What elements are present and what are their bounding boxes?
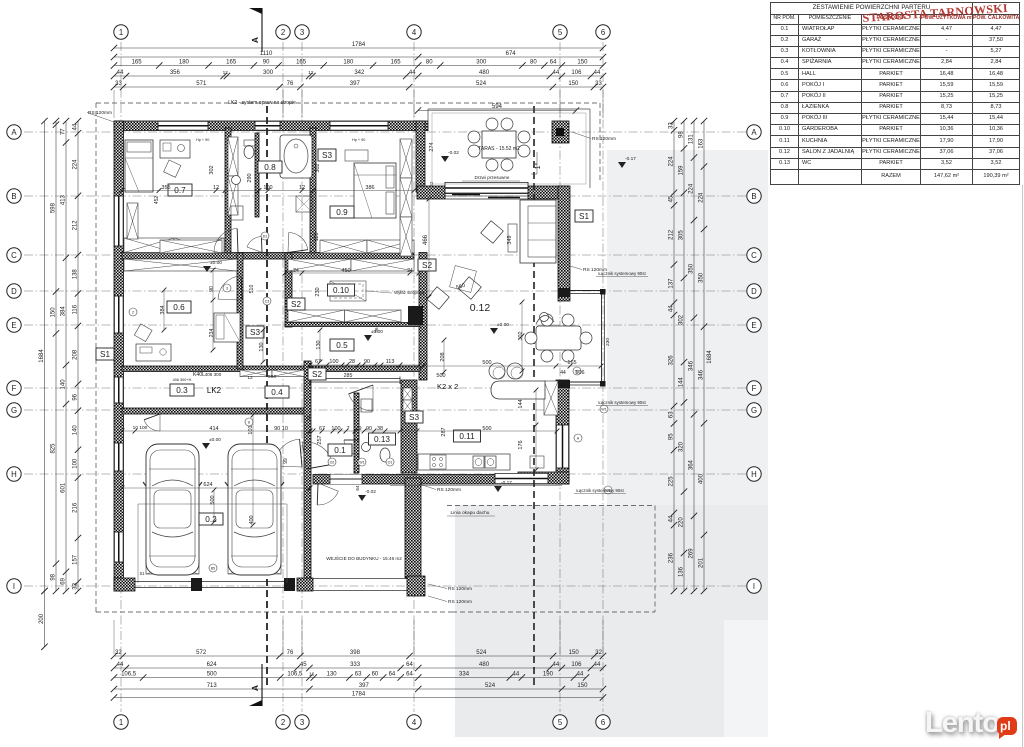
- svg-text:RS 120mm: RS 120mm: [437, 487, 461, 493]
- svg-text:165: 165: [296, 60, 307, 66]
- svg-text:12: 12: [213, 185, 219, 191]
- svg-text:A: A: [250, 37, 260, 43]
- svg-text:12: 12: [299, 185, 305, 191]
- svg-text:305: 305: [679, 230, 685, 241]
- svg-text:9: 9: [358, 426, 361, 432]
- svg-text:E: E: [11, 321, 16, 330]
- svg-text:150: 150: [577, 60, 588, 66]
- svg-text:140: 140: [61, 379, 67, 390]
- svg-text:36: 36: [374, 327, 379, 333]
- svg-text:400: 400: [699, 473, 705, 484]
- svg-text:S3: S3: [322, 151, 332, 160]
- svg-text:O2: O2: [330, 461, 335, 465]
- svg-text:38: 38: [377, 426, 383, 432]
- svg-text:D: D: [11, 287, 17, 296]
- svg-text:67: 67: [319, 426, 325, 432]
- svg-text:33: 33: [669, 122, 675, 129]
- svg-text:466: 466: [423, 234, 429, 245]
- svg-text:TARAS - 15.52 m2: TARAS - 15.52 m2: [478, 146, 520, 152]
- svg-text:44: 44: [409, 70, 416, 76]
- svg-text:350: 350: [699, 272, 705, 283]
- svg-text:Łącznik systemowy 90st: Łącznik systemowy 90st: [598, 400, 646, 405]
- svg-text:LK2: LK2: [207, 386, 222, 395]
- svg-text:44: 44: [577, 672, 584, 678]
- svg-text:230: 230: [315, 287, 321, 296]
- svg-text:B5: B5: [211, 567, 215, 571]
- svg-text:510: 510: [249, 285, 255, 294]
- svg-text:384: 384: [160, 305, 166, 314]
- svg-text:S2: S2: [422, 261, 432, 270]
- svg-text:44: 44: [512, 672, 519, 678]
- svg-text:0.5: 0.5: [336, 341, 348, 350]
- svg-text:140: 140: [73, 425, 79, 436]
- svg-text:24: 24: [306, 415, 311, 421]
- svg-text:F: F: [752, 384, 757, 393]
- svg-text:B: B: [751, 192, 756, 201]
- svg-text:44: 44: [669, 515, 675, 522]
- svg-text:598: 598: [51, 202, 57, 213]
- svg-text:6: 6: [601, 28, 605, 37]
- svg-text:480: 480: [479, 70, 490, 76]
- svg-text:100: 100: [329, 359, 338, 365]
- svg-text:144: 144: [518, 399, 524, 408]
- svg-text:4: 4: [412, 718, 417, 727]
- svg-text:RS 120mm: RS 120mm: [88, 110, 112, 116]
- svg-text:S1: S1: [579, 212, 589, 221]
- svg-text:7: 7: [346, 426, 349, 432]
- svg-text:0.4: 0.4: [271, 388, 283, 397]
- svg-text:1: 1: [119, 718, 123, 727]
- svg-text:K40L: K40L: [193, 372, 205, 378]
- svg-text:12: 12: [223, 70, 229, 76]
- svg-text:10 100: 10 100: [133, 425, 148, 431]
- svg-text:3: 3: [300, 28, 304, 37]
- svg-text:24: 24: [293, 268, 299, 274]
- svg-text:130: 130: [316, 340, 322, 349]
- svg-text:257: 257: [317, 435, 323, 444]
- svg-text:0.1: 0.1: [334, 446, 346, 455]
- svg-text:4: 4: [412, 28, 417, 37]
- svg-text:180: 180: [179, 60, 190, 66]
- svg-text:355: 355: [161, 185, 170, 191]
- svg-text:H: H: [751, 470, 757, 479]
- svg-text:624: 624: [203, 482, 212, 488]
- svg-text:150: 150: [577, 683, 588, 689]
- svg-text:100: 100: [263, 185, 272, 191]
- svg-text:33: 33: [595, 81, 602, 87]
- svg-text:0.6: 0.6: [173, 303, 185, 312]
- svg-text:138: 138: [73, 269, 79, 280]
- svg-text:S2: S2: [291, 300, 301, 309]
- svg-text:500: 500: [207, 672, 218, 678]
- svg-text:-0.17: -0.17: [625, 156, 636, 162]
- svg-text:571: 571: [196, 81, 207, 87]
- svg-text:44: 44: [73, 123, 79, 130]
- svg-text:524: 524: [476, 81, 487, 87]
- svg-text:450: 450: [341, 268, 350, 274]
- svg-text:0.9: 0.9: [336, 208, 348, 217]
- svg-text:1684: 1684: [39, 349, 45, 363]
- svg-text:98: 98: [679, 131, 685, 138]
- svg-text:-0.02: -0.02: [448, 150, 459, 156]
- svg-text:302: 302: [518, 331, 524, 340]
- svg-text:Hp + 90: Hp + 90: [352, 138, 365, 142]
- svg-text:0.12: 0.12: [470, 302, 491, 314]
- svg-text:±0.00: ±0.00: [209, 437, 221, 443]
- svg-text:0.8: 0.8: [264, 163, 276, 172]
- svg-text:572: 572: [196, 650, 207, 656]
- svg-text:O1: O1: [388, 461, 393, 465]
- svg-text:33: 33: [115, 81, 122, 87]
- svg-text:90: 90: [364, 359, 370, 365]
- svg-text:320: 320: [679, 441, 685, 452]
- svg-text:32: 32: [595, 650, 602, 656]
- svg-text:131: 131: [689, 134, 695, 145]
- svg-text:413: 413: [61, 194, 67, 205]
- svg-text:200: 200: [39, 613, 45, 624]
- svg-text:302: 302: [679, 314, 685, 325]
- svg-text:150: 150: [51, 307, 57, 318]
- svg-text:99: 99: [283, 458, 289, 464]
- svg-text:5: 5: [558, 718, 563, 727]
- svg-text:406 300+H: 406 300+H: [173, 378, 192, 382]
- svg-text:G: G: [751, 406, 757, 415]
- svg-text:406 300: 406 300: [205, 372, 222, 377]
- svg-text:130: 130: [327, 672, 338, 678]
- svg-text:44: 44: [669, 305, 675, 312]
- svg-text:165: 165: [132, 60, 143, 66]
- svg-text:269: 269: [689, 548, 695, 559]
- svg-text:80: 80: [530, 60, 537, 66]
- svg-text:150: 150: [569, 650, 580, 656]
- svg-text:W1: W1: [601, 408, 606, 412]
- svg-text:212: 212: [73, 220, 79, 231]
- svg-text:0.11: 0.11: [459, 432, 475, 441]
- svg-text:12: 12: [308, 70, 314, 76]
- svg-text:44: 44: [553, 662, 560, 668]
- svg-text:RS 120mm: RS 120mm: [583, 267, 607, 273]
- svg-text:RS 120mm: RS 120mm: [592, 136, 616, 142]
- svg-text:RS 120mm: RS 120mm: [448, 599, 472, 605]
- svg-text:90: 90: [263, 60, 270, 66]
- svg-text:45: 45: [669, 195, 675, 202]
- svg-text:524: 524: [476, 650, 487, 656]
- svg-text:350: 350: [689, 263, 695, 274]
- svg-text:S3: S3: [250, 328, 260, 337]
- svg-text:452: 452: [154, 196, 160, 205]
- svg-text:K2 x 2: K2 x 2: [437, 382, 458, 391]
- svg-text:400: 400: [249, 515, 255, 524]
- svg-text:67: 67: [315, 359, 321, 365]
- svg-text:212: 212: [669, 229, 675, 240]
- svg-text:113: 113: [386, 359, 395, 365]
- svg-text:33: 33: [73, 582, 79, 589]
- svg-text:2: 2: [281, 28, 285, 37]
- svg-text:44: 44: [594, 70, 601, 76]
- svg-text:106: 106: [571, 70, 582, 76]
- svg-text:63: 63: [669, 411, 675, 418]
- svg-text:45: 45: [300, 662, 307, 668]
- svg-text:Linia okapu dachu: Linia okapu dachu: [451, 510, 490, 516]
- svg-text:674: 674: [506, 51, 517, 57]
- svg-text:414: 414: [209, 426, 218, 432]
- svg-text:S2: S2: [312, 370, 322, 379]
- svg-text:W1: W1: [359, 461, 364, 465]
- svg-text:500: 500: [482, 426, 491, 432]
- svg-text:52: 52: [429, 181, 434, 186]
- svg-text:S1: S1: [139, 571, 145, 576]
- svg-text:106,5: 106,5: [121, 672, 137, 678]
- svg-text:Wyłaz stropowy: Wyłaz stropowy: [394, 290, 426, 295]
- svg-text:RS 120mm: RS 120mm: [448, 586, 472, 592]
- svg-text:Drzwi przesuwne: Drzwi przesuwne: [475, 175, 510, 180]
- svg-text:825: 825: [51, 443, 57, 454]
- svg-text:8: 8: [248, 421, 250, 425]
- svg-text:H: H: [11, 470, 17, 479]
- svg-text:64: 64: [550, 60, 557, 66]
- svg-text:1784: 1784: [352, 692, 366, 698]
- svg-text:95: 95: [669, 433, 675, 440]
- svg-text:163: 163: [699, 138, 705, 149]
- svg-text:90: 90: [366, 426, 372, 432]
- svg-text:I: I: [13, 582, 15, 591]
- svg-text:106,5: 106,5: [287, 672, 303, 678]
- svg-text:302: 302: [315, 163, 321, 172]
- svg-text:159: 159: [679, 165, 685, 176]
- svg-text:208: 208: [73, 349, 79, 360]
- svg-text:201: 201: [699, 557, 705, 568]
- svg-text:C3: C3: [265, 300, 270, 304]
- svg-text:206: 206: [268, 374, 276, 380]
- svg-text:0.13: 0.13: [374, 435, 390, 444]
- svg-text:180: 180: [343, 60, 354, 66]
- svg-text:64: 64: [389, 672, 396, 678]
- svg-text:137: 137: [669, 278, 675, 289]
- svg-text:290: 290: [247, 173, 253, 182]
- svg-text:176: 176: [518, 440, 524, 449]
- svg-text:224: 224: [689, 183, 695, 194]
- svg-text:28: 28: [349, 359, 355, 365]
- svg-text:I: I: [753, 582, 755, 591]
- svg-text:2: 2: [132, 311, 134, 315]
- svg-text:500: 500: [436, 373, 445, 379]
- svg-text:32: 32: [115, 650, 122, 656]
- svg-text:98: 98: [51, 573, 57, 580]
- svg-text:Hp + 90: Hp + 90: [196, 138, 209, 142]
- svg-text:342: 342: [354, 70, 365, 76]
- svg-text:300: 300: [263, 70, 274, 76]
- svg-text:24: 24: [407, 268, 413, 274]
- svg-text:C: C: [11, 251, 17, 260]
- svg-text:D1: D1: [263, 235, 268, 239]
- svg-text:G: G: [11, 406, 17, 415]
- svg-text:100: 100: [73, 458, 79, 469]
- svg-text:190: 190: [543, 672, 554, 678]
- svg-text:3: 3: [300, 718, 304, 727]
- svg-text:LK2 - system opraw na stropie: LK2 - system opraw na stropie: [228, 100, 296, 106]
- svg-text:90: 90: [209, 286, 215, 292]
- svg-text:90 10: 90 10: [274, 426, 288, 432]
- svg-text:106: 106: [575, 370, 584, 376]
- svg-text:A: A: [11, 128, 17, 137]
- svg-text:356: 356: [170, 70, 181, 76]
- svg-text:6: 6: [601, 718, 605, 727]
- svg-text:601: 601: [61, 482, 67, 493]
- svg-text:F: F: [12, 384, 17, 393]
- svg-text:349: 349: [507, 235, 513, 244]
- svg-text:236: 236: [669, 552, 675, 563]
- svg-text:44: 44: [117, 662, 124, 668]
- svg-text:0.2: 0.2: [205, 515, 217, 524]
- svg-text:524: 524: [485, 683, 496, 689]
- svg-text:302: 302: [209, 165, 215, 174]
- svg-text:D: D: [751, 287, 757, 296]
- svg-text:44: 44: [560, 370, 566, 376]
- svg-text:500: 500: [482, 360, 491, 366]
- svg-text:208: 208: [440, 352, 446, 361]
- svg-text:397: 397: [350, 81, 361, 87]
- svg-text:1: 1: [119, 28, 123, 37]
- svg-text:69: 69: [61, 577, 67, 584]
- svg-text:136: 136: [679, 566, 685, 577]
- svg-text:230: 230: [605, 338, 611, 346]
- svg-text:346: 346: [699, 369, 705, 380]
- svg-text:397: 397: [359, 683, 370, 689]
- svg-text:224: 224: [699, 192, 705, 203]
- svg-text:76: 76: [287, 650, 294, 656]
- svg-text:157: 157: [73, 554, 79, 565]
- svg-text:12: 12: [247, 375, 253, 381]
- svg-text:150: 150: [568, 81, 579, 87]
- svg-text:0.10: 0.10: [333, 286, 349, 295]
- svg-text:±0.00: ±0.00: [497, 322, 509, 328]
- svg-text:60: 60: [372, 672, 379, 678]
- svg-text:334: 334: [459, 672, 470, 678]
- svg-text:165: 165: [391, 60, 402, 66]
- svg-text:130: 130: [259, 342, 265, 351]
- svg-text:101: 101: [248, 425, 254, 434]
- svg-text:2: 2: [281, 718, 285, 727]
- svg-text:63: 63: [355, 672, 362, 678]
- svg-text:225: 225: [669, 476, 675, 487]
- svg-text:384: 384: [61, 306, 67, 317]
- svg-text:480: 480: [479, 662, 490, 668]
- svg-text:76: 76: [287, 81, 294, 87]
- svg-text:±0.00: ±0.00: [210, 260, 222, 266]
- svg-text:64: 64: [355, 485, 360, 491]
- svg-text:80: 80: [426, 60, 433, 66]
- svg-text:106: 106: [571, 662, 582, 668]
- svg-text:285: 285: [344, 373, 353, 379]
- svg-text:S1: S1: [100, 350, 110, 359]
- svg-text:E: E: [751, 321, 756, 330]
- svg-text:A: A: [250, 685, 260, 691]
- svg-text:1684: 1684: [707, 350, 713, 364]
- svg-text:3: 3: [226, 287, 228, 291]
- svg-text:5: 5: [558, 28, 563, 37]
- svg-text:216: 216: [73, 502, 79, 513]
- svg-text:16: 16: [309, 672, 315, 678]
- svg-text:346: 346: [689, 360, 695, 371]
- svg-text:Łącznik systemowy 90st: Łącznik systemowy 90st: [576, 488, 624, 493]
- svg-text:C: C: [751, 251, 757, 260]
- svg-text:1784: 1784: [352, 42, 366, 48]
- svg-text:333: 333: [350, 662, 361, 668]
- svg-text:44: 44: [553, 70, 560, 76]
- svg-text:713: 713: [207, 683, 218, 689]
- svg-text:398: 398: [350, 650, 361, 656]
- svg-text:96: 96: [73, 393, 79, 400]
- svg-text:500: 500: [210, 495, 216, 504]
- svg-text:165: 165: [567, 360, 576, 366]
- svg-text:B: B: [11, 192, 16, 201]
- svg-text:300: 300: [476, 60, 487, 66]
- svg-text:-0.17: -0.17: [501, 480, 512, 486]
- svg-text:64: 64: [406, 662, 413, 668]
- svg-text:44: 44: [117, 70, 124, 76]
- svg-text:144: 144: [679, 377, 685, 388]
- svg-text:386: 386: [365, 185, 374, 191]
- svg-text:326: 326: [669, 355, 675, 366]
- svg-text:234: 234: [209, 329, 215, 338]
- svg-text:WEJŚCIE DO BUDYNKU - 15.46 m2: WEJŚCIE DO BUDYNKU - 15.46 m2: [326, 554, 402, 561]
- svg-text:224: 224: [73, 159, 79, 170]
- svg-text:165: 165: [226, 60, 237, 66]
- svg-text:64: 64: [406, 672, 413, 678]
- svg-text:624: 624: [207, 662, 218, 668]
- svg-text:A: A: [751, 128, 757, 137]
- svg-text:224: 224: [669, 156, 675, 167]
- svg-text:S3: S3: [409, 413, 419, 422]
- svg-text:220: 220: [679, 517, 685, 528]
- svg-text:100: 100: [331, 426, 340, 432]
- svg-text:77: 77: [61, 128, 67, 135]
- svg-text:364: 364: [689, 459, 695, 470]
- svg-text:-0.02: -0.02: [365, 489, 376, 495]
- svg-text:0.3: 0.3: [176, 386, 188, 395]
- svg-text:44: 44: [594, 662, 601, 668]
- svg-text:1110: 1110: [260, 51, 273, 57]
- svg-text:287: 287: [441, 427, 447, 436]
- svg-text:110: 110: [314, 233, 320, 242]
- svg-text:116: 116: [73, 304, 79, 314]
- svg-text:1°: 1°: [534, 162, 542, 169]
